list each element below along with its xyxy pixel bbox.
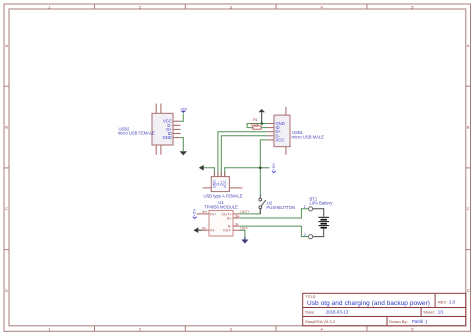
wire +5V node to USB-A VCC	[225, 168, 261, 177]
svg-text:micro USB FEMALE: micro USB FEMALE	[118, 130, 155, 135]
USB2 pin D+	[173, 128, 181, 130]
svg-text:USB type A FEMALE: USB type A FEMALE	[203, 193, 242, 198]
wire B+ to battery +	[240, 209, 309, 218]
U1 inside pin names	[210, 212, 217, 232]
frame row letters right	[467, 43, 470, 293]
USB-A rotated pin names	[213, 180, 227, 188]
BT1 pin 2 terminal	[309, 235, 313, 239]
svg-text:B: B	[467, 125, 470, 130]
ground (left arrow) at IN-	[198, 229, 203, 231]
wire R1 loop (GND side)	[247, 124, 262, 128]
wire B- to battery -	[240, 226, 309, 237]
USB-A pin VCC (top)	[224, 172, 226, 177]
title block REV divider	[434, 293, 436, 307]
svg-text:1.0: 1.0	[449, 300, 456, 305]
USB1 pin D+	[267, 131, 274, 133]
battery wire bottom	[313, 228, 324, 236]
USB1 pin VCC	[267, 139, 274, 141]
svg-text:A: A	[5, 43, 8, 48]
frame row letters left	[5, 43, 8, 293]
USB1 mounting pin bottom	[285, 147, 287, 155]
svg-text:B+: B+	[227, 216, 233, 220]
svg-text:TP4056 MODULE: TP4056 MODULE	[204, 205, 238, 210]
svg-text:C: C	[467, 206, 470, 211]
svg-text:micro USB MALE: micro USB MALE	[292, 135, 325, 140]
wire USB1 VCC down to +5V node and pushbutton	[260, 140, 267, 195]
frame column digits bottom	[48, 326, 414, 331]
svg-text:OUT-: OUT-	[223, 229, 233, 233]
svg-text:IN+: IN+	[202, 210, 207, 214]
ground (up arrow) above USB1	[261, 112, 263, 123]
svg-text:100k: 100k	[250, 122, 258, 126]
BT1 pin 1 terminal	[309, 207, 313, 211]
svg-text:TITLE:: TITLE:	[305, 295, 316, 299]
svg-text:EasyEDA V5.3.2: EasyEDA V5.3.2	[305, 319, 335, 324]
U1 pin B-	[233, 225, 240, 227]
ground (blue arrow) at OUT-	[241, 237, 248, 244]
U1 outside pin labels	[202, 210, 249, 230]
wire OUT- to ground	[240, 230, 245, 239]
svg-text:+5V: +5V	[192, 209, 197, 217]
pushbutton bottom contact	[259, 206, 262, 209]
USB2 pin names	[162, 119, 172, 140]
node junction +5V	[259, 167, 262, 170]
title block divider under date row	[303, 316, 466, 318]
USB2 pin D-	[173, 124, 181, 126]
pushbutton bottom pin	[259, 209, 261, 214]
svg-text:IN-: IN-	[210, 229, 216, 233]
title block DrawnBy divider	[386, 317, 388, 326]
svg-text:D: D	[5, 288, 8, 293]
battery wire top	[313, 209, 324, 217]
svg-text:R1: R1	[253, 118, 258, 122]
svg-text:IN-: IN-	[202, 227, 207, 231]
frame column digits top	[48, 4, 414, 9]
USB1 pin GND	[267, 123, 274, 125]
connector USB-A body	[211, 177, 229, 192]
svg-text:+5V: +5V	[271, 163, 276, 171]
+5V power flag	[181, 111, 187, 113]
node junction GND/R1	[260, 122, 263, 125]
svg-text:B+: B+	[236, 214, 240, 218]
USB1 pin names	[276, 121, 285, 142]
frame column ticks top	[95, 4, 367, 9]
svg-text:IN+: IN+	[210, 212, 217, 216]
+5V net flag (rotated, at IN+)	[192, 209, 203, 219]
svg-text:LiPo Battery: LiPo Battery	[310, 200, 334, 205]
wire OUT+ to pushbutton	[240, 209, 260, 214]
svg-text:VCC: VCC	[276, 137, 285, 142]
svg-text:2: 2	[304, 233, 306, 237]
frame row ticks right	[466, 86, 471, 249]
svg-text:A: A	[467, 43, 470, 48]
svg-text:Drawn By:: Drawn By:	[389, 319, 407, 324]
U1 body	[209, 211, 233, 237]
svg-text:D: D	[467, 288, 470, 293]
wire USB-A GND up and left to ground	[204, 168, 215, 177]
U1 pin B+	[233, 217, 240, 219]
USB-A mounting pin left	[203, 187, 212, 189]
USB-A pin D- (top)	[217, 172, 219, 177]
USB2 mounting pin bottom-left	[155, 145, 157, 155]
USB2 mounting pin top-right	[160, 104, 162, 114]
resistor R1 body	[253, 126, 261, 129]
frame column ticks bottom	[95, 326, 367, 332]
battery cell plates	[318, 217, 329, 227]
USB2 pin VCC	[173, 120, 180, 122]
svg-text:Patrik :): Patrik :)	[412, 319, 428, 324]
svg-text:Date:: Date:	[305, 309, 315, 314]
U1 pin OUT-	[233, 229, 240, 231]
USB2 pin ID	[173, 133, 181, 135]
title block Sheet divider	[420, 308, 422, 317]
wire USB1 GND to junction	[262, 123, 268, 125]
pushbutton top contact	[259, 198, 262, 201]
wire R1 to ID pin	[261, 127, 267, 129]
pushbutton lever	[261, 200, 266, 206]
svg-text:VCC: VCC	[223, 180, 227, 188]
U1 pin OUT+	[233, 213, 240, 215]
USB1 pin ID	[267, 127, 274, 129]
connector USB2 body	[152, 113, 173, 145]
USB-A pin GND (top)	[213, 172, 215, 177]
svg-text:Sheet:: Sheet:	[423, 309, 435, 314]
svg-text:+5V: +5V	[180, 107, 188, 112]
svg-text:2018-03-13: 2018-03-13	[326, 309, 349, 314]
U1 pin IN+	[202, 213, 209, 215]
USB2 mounting pin top-left	[155, 104, 157, 114]
title block divider under title row	[303, 307, 466, 309]
svg-text:B-: B-	[236, 222, 239, 226]
svg-text:1/1: 1/1	[438, 309, 445, 314]
pushbutton top pin	[259, 195, 261, 199]
svg-text:1: 1	[304, 205, 306, 209]
svg-text:REV:: REV:	[438, 300, 447, 305]
title block outline	[303, 293, 466, 326]
connector USB1 body	[274, 115, 290, 147]
USB2 pin GND	[173, 137, 180, 139]
svg-text:Usb otg and charging (and back: Usb otg and charging (and backup power)	[307, 300, 430, 307]
ground (down arrow)	[180, 151, 187, 155]
wire VCC to +5V	[180, 114, 184, 122]
wire USB1 D- to USB-A female	[221, 136, 267, 177]
ground (left arrow) at USB-A	[199, 165, 204, 171]
U1 pin IN-	[202, 229, 209, 231]
wire USB1 D+ to USB-A female	[218, 132, 267, 177]
svg-text:GND: GND	[162, 135, 171, 140]
USB-A mounting pin right	[229, 187, 242, 189]
USB1 mounting pin top	[285, 107, 287, 115]
+5V net flag (rotated)	[260, 167, 269, 169]
USB1 pin D-	[267, 135, 274, 137]
svg-text:C: C	[5, 206, 8, 211]
USB2 mounting pin bottom-right	[160, 145, 162, 155]
frame row ticks left	[4, 86, 9, 249]
USB-A pin D+ (top)	[220, 172, 222, 177]
svg-text:B: B	[5, 125, 8, 130]
wire GND of USB2 to ground	[180, 138, 184, 151]
svg-text:PUSHBUTTON: PUSHBUTTON	[266, 205, 295, 210]
